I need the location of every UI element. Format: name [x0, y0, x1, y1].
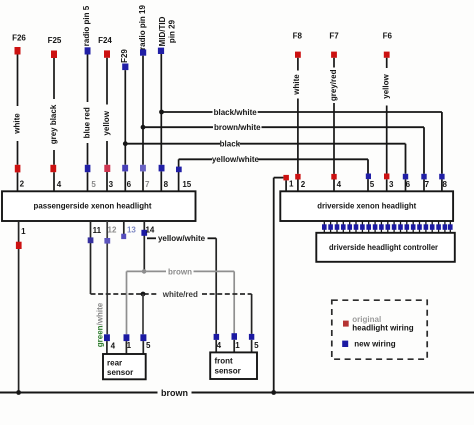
pin 7 driverside: [421, 174, 429, 191]
wire brown bottom: [0, 388, 474, 398]
svg-text:12: 12: [108, 226, 117, 235]
svg-text:8: 8: [164, 180, 169, 189]
node bottom right junction dot: [271, 390, 276, 395]
pin 1 driverside: [283, 175, 294, 191]
pin 14 passengerside: [141, 221, 154, 271]
svg-text:F6: F6: [383, 31, 393, 40]
svg-text:yellow: yellow: [382, 73, 391, 98]
svg-text:new wiring: new wiring: [354, 339, 395, 348]
wire white/red: [91, 290, 252, 334]
svg-text:sensor: sensor: [215, 367, 241, 376]
legend new wiring: [342, 339, 396, 348]
fuse F25: [48, 36, 62, 58]
svg-text:F26: F26: [12, 34, 26, 43]
rear sensor box: [103, 354, 146, 379]
svg-text:4: 4: [111, 342, 116, 351]
wire black/white: [162, 108, 442, 174]
svg-text:rear: rear: [107, 358, 122, 367]
svg-text:white/red: white/red: [162, 290, 198, 299]
node black/white junction dot: [159, 110, 164, 115]
front sensor pin 1: [232, 333, 241, 352]
svg-text:yellow/white: yellow/white: [212, 155, 260, 164]
svg-text:1: 1: [235, 341, 240, 350]
front sensor box: [210, 352, 257, 379]
passengerside xenon headlight box: [2, 191, 196, 221]
svg-text:F8: F8: [293, 31, 303, 40]
svg-text:F25: F25: [48, 36, 62, 45]
svg-text:8: 8: [442, 180, 447, 189]
svg-text:headlight wiring: headlight wiring: [352, 324, 413, 333]
svg-text:radio pin 5: radio pin 5: [82, 5, 91, 46]
legend original wiring: [343, 315, 414, 333]
svg-text:MID/TID: MID/TID: [158, 16, 167, 46]
radio pin 5 terminal: [82, 5, 91, 54]
fuse F26: [12, 34, 26, 55]
svg-text:black/white: black/white: [214, 108, 258, 117]
pin 4 driverside: [331, 174, 341, 189]
svg-text:sensor: sensor: [107, 368, 133, 377]
svg-text:F29: F29: [120, 49, 129, 63]
MID/TID pin 29 terminal: [158, 16, 177, 54]
fuse F24: [98, 36, 112, 58]
svg-text:driverside headlight controlle: driverside headlight controller: [329, 243, 438, 252]
wire yellow/white upper: [179, 155, 368, 173]
svg-text:brown: brown: [168, 267, 192, 276]
node brown/white junction dot: [141, 125, 146, 130]
svg-text:13: 13: [127, 226, 136, 235]
pin 2 driverside: [295, 174, 306, 189]
pin 13 passengerside: [121, 221, 136, 239]
wire grey black F25 to pin 4: [49, 58, 58, 191]
wire yellow/white pin 14 to front sensor: [147, 234, 216, 334]
node bottom left junction dot: [16, 390, 21, 395]
svg-text:5: 5: [91, 180, 96, 189]
svg-text:brown/white: brown/white: [214, 123, 261, 132]
wire green/white label: [95, 302, 104, 347]
pin 3 driverside: [384, 174, 394, 189]
pin 12 passengerside: [104, 221, 117, 334]
svg-text:4: 4: [337, 180, 342, 189]
front sensor pin 5: [249, 334, 259, 353]
driverside headlight controller box: [316, 233, 455, 262]
svg-text:7: 7: [145, 180, 150, 189]
svg-text:blue red: blue red: [82, 107, 91, 138]
legend box: [332, 300, 427, 359]
fuse F29: [120, 49, 129, 71]
node white/red junction dot: [141, 292, 146, 335]
pin 15 passengerside: [176, 159, 192, 191]
svg-text:7: 7: [425, 180, 430, 189]
pin 5 driverside: [366, 174, 375, 192]
svg-text:2: 2: [301, 180, 306, 189]
node black junction dot: [123, 141, 128, 146]
wire blue red radio pin 5 to pin 5: [82, 55, 91, 192]
pin 8 driverside: [439, 174, 447, 191]
wire yellow F24 to pin 3: [102, 58, 111, 191]
svg-text:11: 11: [93, 226, 102, 235]
wire grey/red F7 to driverside pin 4: [329, 58, 338, 191]
rear sensor pin 5: [140, 334, 151, 354]
svg-text:1: 1: [21, 227, 26, 236]
svg-text:white: white: [12, 113, 21, 135]
svg-text:2: 2: [20, 180, 25, 189]
svg-text:4: 4: [57, 180, 62, 189]
svg-text:5: 5: [370, 180, 375, 189]
pin 7 passengerside: [140, 165, 150, 189]
svg-text:grey black: grey black: [49, 104, 58, 144]
node brown junction dot: [142, 269, 147, 274]
svg-text:black: black: [220, 140, 241, 149]
radio pin 19 terminal: [138, 5, 147, 56]
svg-text:F7: F7: [329, 31, 339, 40]
svg-text:yellow/white: yellow/white: [158, 234, 206, 243]
svg-text:3: 3: [389, 180, 394, 189]
svg-text:passengerside xenon headlight: passengerside xenon headlight: [34, 202, 152, 211]
svg-text:F24: F24: [98, 36, 112, 45]
svg-text:pin 29: pin 29: [168, 19, 177, 43]
rear sensor pin 4: [104, 334, 116, 354]
svg-text:5: 5: [254, 341, 259, 350]
pin 8 passengerside: [159, 165, 169, 189]
svg-text:6: 6: [406, 180, 411, 189]
wire white F26 to pin 2: [12, 55, 21, 192]
wire black: [125, 140, 405, 174]
fuse F8: [293, 31, 303, 58]
fuse F7: [329, 31, 339, 58]
svg-text:front: front: [215, 357, 234, 366]
svg-text:white: white: [292, 74, 301, 96]
svg-text:green/white: green/white: [95, 302, 104, 347]
svg-text:original: original: [352, 315, 381, 324]
pin 6 passengerside: [122, 165, 131, 189]
pin 1 passengerside: [16, 221, 26, 393]
fuse F6: [383, 31, 393, 58]
pin 11 passengerside: [88, 221, 102, 294]
driverside xenon headlight box: [280, 191, 453, 221]
front sensor pin 4: [214, 334, 222, 353]
svg-text:6: 6: [127, 180, 132, 189]
svg-text:14: 14: [145, 225, 154, 234]
wire brown middle: [127, 267, 235, 334]
svg-text:15: 15: [182, 180, 191, 189]
rear sensor pin 1: [124, 334, 132, 354]
pin 3 passengerside: [104, 165, 113, 189]
svg-text:grey/red: grey/red: [329, 69, 338, 101]
wire radio pin 19 to pin 7: [142, 56, 144, 191]
wire brown/white: [143, 123, 424, 174]
connector pins headlight to controller: [322, 221, 453, 233]
svg-text:yellow: yellow: [102, 110, 111, 135]
svg-text:1: 1: [127, 341, 132, 350]
wire driverside pin 1 feed: [274, 178, 284, 393]
svg-text:1: 1: [289, 179, 294, 188]
svg-text:4: 4: [217, 341, 222, 350]
wire yellow F6 to driverside pin 3: [382, 58, 391, 191]
wire F29 to pin 6: [124, 70, 126, 191]
pin 4 passengerside: [50, 165, 61, 189]
wire white F8 to driverside pin 2: [292, 58, 301, 191]
wire MID/TID to pin 8: [160, 54, 162, 191]
svg-text:brown: brown: [161, 388, 188, 398]
pin 6 driverside: [403, 174, 411, 191]
pin 2 passengerside: [15, 165, 25, 189]
svg-text:radio pin 19: radio pin 19: [138, 5, 147, 50]
pin 5 passengerside: [85, 165, 97, 189]
svg-text:3: 3: [109, 180, 114, 189]
svg-text:driverside xenon headlight: driverside xenon headlight: [317, 202, 416, 211]
svg-text:5: 5: [146, 341, 151, 350]
